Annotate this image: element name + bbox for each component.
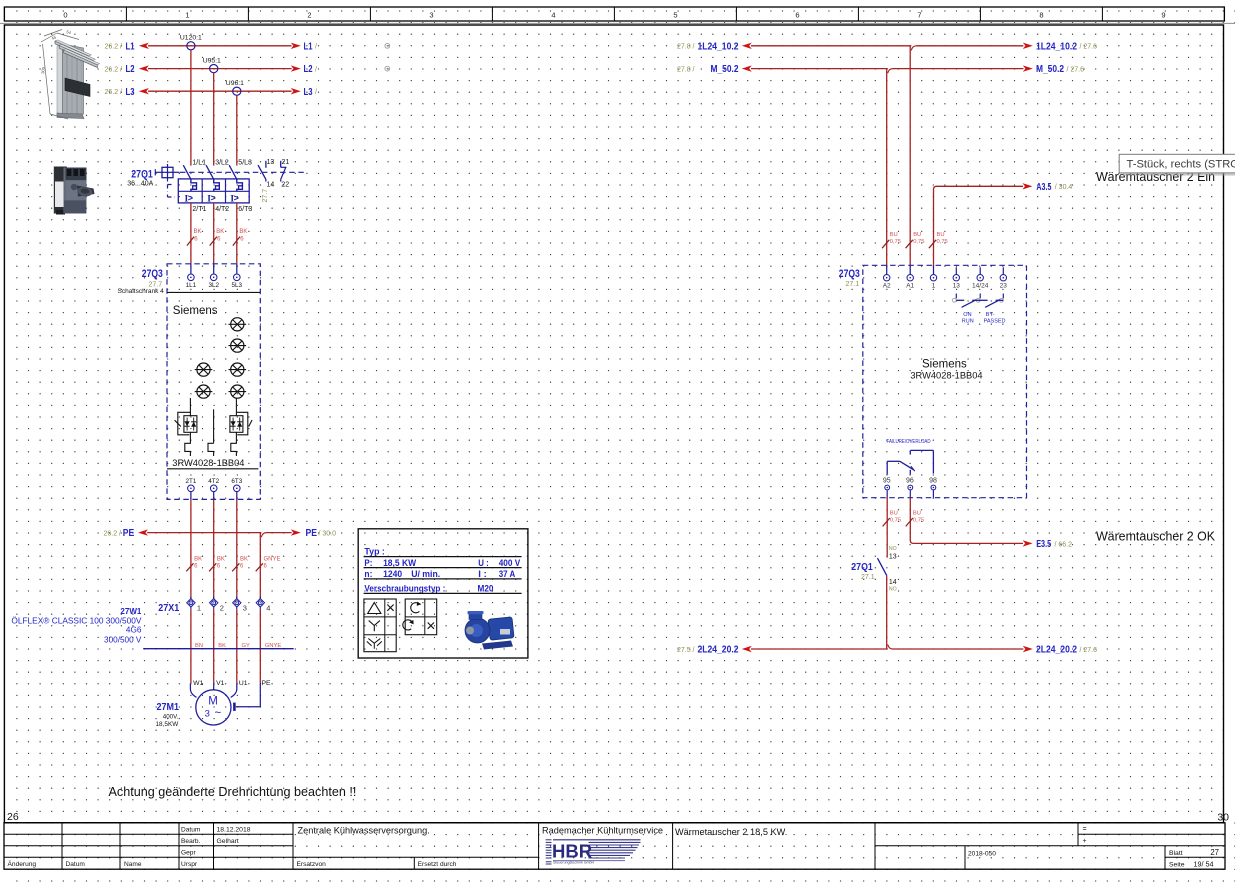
feedback contacts 13/14-24/23 <box>952 294 1003 308</box>
svg-text:V1: V1 <box>216 680 225 687</box>
connection point U120:1 <box>180 35 202 50</box>
svg-text:PE: PE <box>262 680 272 687</box>
svg-text:27: 27 <box>1210 848 1219 857</box>
svg-text:U1: U1 <box>239 680 248 687</box>
motor 27M1 symbol <box>190 683 236 725</box>
svg-text:/ 66.2: / 66.2 <box>1055 541 1073 548</box>
svg-text:1: 1 <box>932 282 936 289</box>
wire label BU 0,75 (control 1) <box>882 232 901 248</box>
svg-text:BK: BK <box>218 643 226 649</box>
soft starter control terminal 95 <box>883 478 891 498</box>
svg-text:27X1: 27X1 <box>158 602 179 614</box>
wire label BK 6 (phase 1) <box>187 229 202 245</box>
breaker 27Q1 aux contact 13-14 <box>258 159 274 189</box>
svg-text:BU: BU <box>890 511 898 517</box>
svg-text:BK: BK <box>239 229 247 235</box>
soft starter screw terminal 1 <box>229 318 247 331</box>
svg-text:PASSED: PASSED <box>984 318 1006 324</box>
svg-text:0,75: 0,75 <box>937 239 948 245</box>
svg-text:U120:1: U120:1 <box>180 35 202 42</box>
soft starter control terminal 98 <box>929 478 937 498</box>
connection point U96:1 <box>226 80 244 95</box>
wire 6/T3 to 1L5 <box>236 203 238 274</box>
svg-text:ÖLFLEX® CLASSIC 100 300/500V: ÖLFLEX® CLASSIC 100 300/500V <box>11 615 142 625</box>
svg-text:13: 13 <box>889 554 897 561</box>
svg-text:300/500 V: 300/500 V <box>104 636 142 645</box>
soft starter terminal 3L2 <box>208 274 219 289</box>
soft starter thyristor phase1 <box>175 398 197 456</box>
svg-text:L1: L1 <box>304 40 313 52</box>
svg-text:5L3: 5L3 <box>232 282 243 289</box>
breaker 27Q1 cross-reference 27.7 <box>262 189 269 203</box>
breaker 27Q1 pin 4/T2 <box>215 206 229 213</box>
cable conductor label GY <box>242 643 251 649</box>
terminal 27X1:2 <box>210 597 224 613</box>
svg-text:22: 22 <box>281 182 289 189</box>
svg-text:Siemens: Siemens <box>173 305 218 317</box>
svg-text:4: 4 <box>551 11 555 20</box>
svg-text:6/T3: 6/T3 <box>238 206 252 213</box>
svg-text:Änderung: Änderung <box>8 860 37 868</box>
svg-text:3RW4028-1BB04: 3RW4028-1BB04 <box>172 458 244 468</box>
wire 27X1:2 to motor <box>213 609 215 683</box>
photo: busbar adapter <box>40 29 100 119</box>
soft starter 27Q3 control dashed outline <box>863 265 1027 497</box>
soft starter screw terminal 5 <box>195 385 213 398</box>
soft starter terminal 6T3 <box>231 478 242 492</box>
svg-text:18,5 KW: 18,5 KW <box>383 558 416 568</box>
soft starter phase2 through-path <box>208 409 214 456</box>
soft starter control type text <box>910 358 982 380</box>
svg-text:Name: Name <box>124 861 142 868</box>
svg-text:M_50.2: M_50.2 <box>1036 63 1064 75</box>
svg-text:98: 98 <box>929 478 937 485</box>
text Waeremtauscher 2 Ein <box>1096 169 1215 184</box>
svg-text:BU: BU <box>937 232 945 238</box>
svg-text:=: = <box>1083 826 1087 833</box>
tooltip T-Stueck rechts <box>1119 154 1235 175</box>
wire L1 drop <box>190 50 192 166</box>
svg-text:4T2: 4T2 <box>208 478 219 485</box>
title block text fields <box>8 826 1220 869</box>
svg-text:T-Stück, rechts (STRG: T-Stück, rechts (STRG <box>1127 159 1235 171</box>
svg-text:96: 96 <box>906 478 914 485</box>
motor 27M1 labels <box>156 701 180 728</box>
wire label BU 0,75 (control 3) <box>929 232 948 248</box>
photo: pump <box>465 611 514 650</box>
soft starter type text <box>172 458 244 468</box>
breaker 27Q1 aux contact 21-22 <box>281 159 290 189</box>
svg-text:27Q1: 27Q1 <box>131 168 153 180</box>
svg-text:0,75: 0,75 <box>890 517 901 523</box>
svg-text:5/L3: 5/L3 <box>238 160 252 167</box>
bus wire M_50.2 <box>677 63 1084 75</box>
wire label BK 6 (27X1:1) <box>186 557 202 572</box>
svg-text:2: 2 <box>307 11 311 20</box>
svg-text:M_50.2: M_50.2 <box>711 63 739 75</box>
svg-text:U/ min.: U/ min. <box>411 569 440 579</box>
svg-text:14: 14 <box>889 579 897 586</box>
connection point U95:1 <box>203 57 221 72</box>
svg-text:1L1: 1L1 <box>186 282 197 289</box>
breaker 27Q1 pin 2/T1 <box>192 206 206 213</box>
svg-text:/ 27.6: / 27.6 <box>1080 647 1098 654</box>
breaker 27Q1 pole 1/L1 contact <box>183 160 206 180</box>
svg-text:2/T1: 2/T1 <box>192 206 206 213</box>
terminal 27X1:4 <box>256 597 270 613</box>
svg-text:3RW4028-1BB04: 3RW4028-1BB04 <box>910 370 982 380</box>
soft starter control terminal A1 <box>906 275 914 290</box>
svg-text:27W1: 27W1 <box>120 607 141 616</box>
bus wire PE <box>103 527 336 539</box>
svg-text:400V.: 400V. <box>163 713 179 720</box>
svg-text:A3.5: A3.5 <box>1036 181 1051 193</box>
svg-text:18.12.2018: 18.12.2018 <box>217 826 251 833</box>
svg-text:7: 7 <box>917 11 921 20</box>
svg-text:Bearb.: Bearb. <box>181 838 201 845</box>
svg-text:Datum: Datum <box>66 861 86 868</box>
svg-text:3: 3 <box>205 709 210 720</box>
svg-text:GY: GY <box>242 643 251 649</box>
svg-text:L2: L2 <box>126 63 135 75</box>
svg-text:>: > <box>234 193 239 203</box>
warning note text <box>109 785 357 799</box>
svg-text:HBR: HBR <box>552 840 592 861</box>
svg-text:3/L2: 3/L2 <box>215 160 229 167</box>
wire 14 to 2L24 junction <box>887 576 893 649</box>
contact 27Q1 13-14 <box>851 546 896 592</box>
svg-text:14/24: 14/24 <box>972 282 989 289</box>
svg-text:Wärmetauscher 2 18,5 KW.: Wärmetauscher 2 18,5 KW. <box>675 827 787 837</box>
svg-text:27.5 /: 27.5 / <box>677 647 695 654</box>
svg-text:18,5KW: 18,5KW <box>156 721 180 728</box>
svg-text:27.7: 27.7 <box>262 189 269 203</box>
soft starter 27Q3 dashed outline <box>167 264 260 500</box>
svg-text:GNYE: GNYE <box>264 557 281 563</box>
svg-text:4G6: 4G6 <box>126 626 142 635</box>
svg-text:U95:1: U95:1 <box>203 57 221 64</box>
svg-text:2: 2 <box>220 603 224 612</box>
wire A3.5 branch <box>934 186 1024 274</box>
soft starter control terminal 1 <box>930 275 936 290</box>
svg-text:27Q3: 27Q3 <box>839 268 860 280</box>
soft starter control terminal 96 <box>906 478 914 498</box>
bus wire L1 <box>104 40 317 52</box>
wire 27X1:4 to motor PE <box>259 609 261 683</box>
svg-text:Ersetzt durch: Ersetzt durch <box>418 861 457 868</box>
svg-text:A1: A1 <box>906 282 914 289</box>
svg-text:2018-050: 2018-050 <box>968 850 996 857</box>
soft starter control terminal 23 <box>1000 267 1008 289</box>
winding connection symbol table <box>364 599 396 652</box>
svg-text:>: > <box>188 193 193 203</box>
svg-text:GNYE: GNYE <box>265 643 282 649</box>
soft starter brand text <box>173 305 218 317</box>
svg-text:L2: L2 <box>304 63 313 75</box>
svg-text:Zentrale Kühlwasserversorgung.: Zentrale Kühlwasserversorgung. <box>298 826 430 836</box>
svg-text:BU: BU <box>913 232 921 238</box>
svg-text:/ 27.6: / 27.6 <box>1080 44 1098 51</box>
wire label BK 6 (phase 2) <box>210 229 225 245</box>
svg-text:95: 95 <box>883 478 891 485</box>
terminal 27X1:1 <box>187 597 201 613</box>
wire 4T2 to 27X1:2 <box>213 491 215 600</box>
svg-text:/: / <box>315 89 317 96</box>
bus wire L2 <box>104 63 317 75</box>
svg-text:P:: P: <box>364 558 372 568</box>
svg-text:27.1: 27.1 <box>846 281 860 288</box>
svg-text:13: 13 <box>953 282 961 289</box>
svg-text:3: 3 <box>243 603 247 612</box>
svg-text:>: > <box>211 193 216 203</box>
svg-text:Urspr: Urspr <box>181 861 198 868</box>
wire label BK 6 (phase 3) <box>233 229 248 245</box>
wire 4/T2 to 1L3 <box>213 203 215 274</box>
svg-text:Blatt: Blatt <box>1169 850 1183 857</box>
svg-text:L1: L1 <box>126 40 135 52</box>
soft starter control terminal A2 <box>883 275 891 290</box>
cable conductor label BN <box>195 643 203 649</box>
grid marker near L1 <box>385 43 390 48</box>
svg-text:0,75: 0,75 <box>913 239 924 245</box>
svg-text:Gepr: Gepr <box>181 849 196 856</box>
svg-text:9: 9 <box>1161 11 1165 20</box>
soft starter screw terminal 2 <box>229 339 247 352</box>
svg-text:2L24_20.2: 2L24_20.2 <box>1036 644 1077 656</box>
soft starter screw terminal 3 <box>195 363 213 376</box>
wire junction 1L24 to A1 <box>910 46 916 275</box>
svg-text:PE: PE <box>306 527 318 539</box>
svg-text:BK: BK <box>194 229 202 235</box>
soft starter control terminal 13 <box>953 267 961 289</box>
svg-text:3: 3 <box>429 11 433 20</box>
bus wire L3 <box>104 86 317 98</box>
failure/overload changeover contact <box>887 439 934 475</box>
cable conductor label BK <box>218 643 226 649</box>
svg-text:FAILURE/OVERLOAD: FAILURE/OVERLOAD <box>887 439 931 445</box>
wire 95 down <box>886 498 888 558</box>
svg-text:ON: ON <box>963 312 971 318</box>
svg-text:4: 4 <box>266 603 270 612</box>
svg-text:36...40A: 36...40A <box>127 181 153 188</box>
svg-text:Datum: Datum <box>181 827 201 834</box>
wire 96 to E3.5 <box>910 498 1023 544</box>
svg-text:5: 5 <box>673 11 677 20</box>
wire junction M_50 to A2 <box>887 69 893 275</box>
svg-text:1L24_10.2: 1L24_10.2 <box>698 40 739 52</box>
wire label BU 0,75 (below box 1) <box>883 511 901 527</box>
svg-text:NO: NO <box>889 586 897 592</box>
svg-text:Verschraubungstyp :: Verschraubungstyp : <box>364 583 445 593</box>
breaker 27Q1 pole 3/L2 contact <box>206 160 229 180</box>
svg-text:Wäremtauscher 2 OK: Wäremtauscher 2 OK <box>1096 528 1215 543</box>
svg-text:1240: 1240 <box>383 569 402 579</box>
svg-text:0,75: 0,75 <box>913 517 924 523</box>
wire label BK 6 (27X1:2) <box>209 557 225 572</box>
motor data plate box <box>358 529 528 658</box>
svg-text:Steuerungstechnik GmbH: Steuerungstechnik GmbH <box>553 860 595 864</box>
soft starter terminal 5L3 <box>232 274 243 289</box>
svg-text:26.2 /: 26.2 / <box>103 530 121 537</box>
cable 27W1 OLFLEX CLASSIC 100 <box>11 607 293 649</box>
terminal strip 27X1 label <box>158 602 179 614</box>
svg-text:6: 6 <box>795 11 799 20</box>
svg-text:I :: I : <box>478 569 487 579</box>
svg-text:6T3: 6T3 <box>231 478 242 485</box>
svg-text:/ 30.0: / 30.0 <box>319 530 337 537</box>
svg-text:1/L1: 1/L1 <box>192 160 206 167</box>
soft starter bottom rail <box>167 468 258 470</box>
svg-text:M20: M20 <box>478 583 494 593</box>
soft starter 27Q3 control labels <box>839 268 860 288</box>
svg-text:/: / <box>315 66 317 73</box>
svg-text:~: ~ <box>214 707 221 719</box>
text Waeremtauscher 2 OK <box>1096 528 1215 543</box>
terminal 27X1:3 <box>233 597 247 613</box>
svg-text:M: M <box>208 696 218 708</box>
svg-text:13: 13 <box>267 159 275 166</box>
svg-text:BK: BK <box>217 557 225 563</box>
svg-text:L3: L3 <box>304 86 313 98</box>
svg-text:Seite: Seite <box>1169 861 1185 868</box>
svg-text:27.1: 27.1 <box>861 574 875 581</box>
cable conductor label GNYE <box>265 643 282 649</box>
signal arrow A3.5 <box>1022 181 1072 193</box>
svg-text:14: 14 <box>267 182 275 189</box>
breaker 27Q1 release box I> <box>168 179 250 204</box>
motor terminal labels W1 V1 U1 PE <box>193 680 271 687</box>
rotation direction symbol table <box>403 599 437 635</box>
svg-text:/: / <box>315 44 317 51</box>
wire L3 drop <box>236 95 238 165</box>
wire label BU 0,75 (control 2) <box>906 232 925 248</box>
bus wire 2L24_20.2 <box>677 644 1097 656</box>
svg-text:BU: BU <box>890 232 898 238</box>
wire 2T1 to 27X1:1 <box>190 491 192 600</box>
wire label GNYE 6 (27X1:4) <box>256 557 281 572</box>
wire label BU 0,75 (below box 2) <box>906 511 924 527</box>
svg-text:BK: BK <box>194 557 202 563</box>
svg-text:RUN: RUN <box>962 318 974 324</box>
wire 2/T1 to 1L1 <box>190 203 192 274</box>
svg-text:BK: BK <box>240 557 248 563</box>
svg-text:30: 30 <box>1217 812 1229 824</box>
page number 26 <box>7 811 19 823</box>
svg-text:0: 0 <box>63 11 67 20</box>
svg-text:23: 23 <box>1000 282 1008 289</box>
svg-text:1L24_10.2: 1L24_10.2 <box>1036 40 1077 52</box>
soft starter top rail <box>167 291 260 293</box>
svg-text:U :: U : <box>478 558 489 568</box>
svg-text:BK: BK <box>216 229 224 235</box>
svg-text:0,75: 0,75 <box>890 239 901 245</box>
svg-text:/ 27.6: / 27.6 <box>1067 66 1085 73</box>
svg-text:8: 8 <box>1039 11 1043 20</box>
svg-text:L3: L3 <box>126 86 135 98</box>
photo: motor protection switch <box>54 167 95 215</box>
svg-text:26.2 /: 26.2 / <box>104 66 122 73</box>
breaker 27Q1 labels <box>127 168 153 187</box>
soft starter terminal 4T2 <box>208 478 219 492</box>
soft starter control terminal 14/24 <box>972 267 989 289</box>
svg-text:Ersatzvon: Ersatzvon <box>297 861 327 868</box>
motor PE connection bar <box>234 683 260 711</box>
svg-text:+: + <box>1083 838 1087 845</box>
page number 30 <box>1217 812 1229 824</box>
breaker 27Q1 pole 5/L3 contact <box>229 160 252 180</box>
grid marker near L2 <box>385 66 390 71</box>
svg-text:27.8 /: 27.8 / <box>677 66 695 73</box>
breaker 27Q1 linkage dashed line <box>180 171 306 173</box>
svg-text:1: 1 <box>185 11 189 20</box>
svg-text:E3.5: E3.5 <box>1036 538 1051 550</box>
soft starter screw terminal 6 <box>229 385 247 398</box>
breaker 27Q1 pin 6/T3 <box>238 206 252 213</box>
wire 27X1:1 to motor <box>190 609 192 683</box>
soft starter terminal 2T1 <box>185 478 196 492</box>
soft starter terminal 1L1 <box>186 274 197 289</box>
wire 27X1:3 to motor <box>236 609 238 683</box>
svg-text:3L2: 3L2 <box>208 282 219 289</box>
svg-text:26.2 /: 26.2 / <box>104 44 122 51</box>
wire PE branch jog <box>260 533 266 601</box>
svg-text:Typ :: Typ : <box>364 547 385 557</box>
soft starter thyristor phase3 <box>230 398 252 456</box>
svg-text:Achtung geänderte Drehrichtung: Achtung geänderte Drehrichtung beachten … <box>109 785 357 799</box>
svg-text:PE: PE <box>123 527 135 539</box>
svg-text:Siemens: Siemens <box>922 358 967 370</box>
svg-text:19/ 54: 19/ 54 <box>1194 859 1214 868</box>
wire L2 drop <box>213 73 215 166</box>
svg-text:Gelhart: Gelhart <box>217 838 239 845</box>
svg-text:Rademacher Kühlturmservice: Rademacher Kühlturmservice <box>542 826 663 836</box>
wire label BK 6 (27X1:3) <box>232 557 248 572</box>
svg-text:27Q3: 27Q3 <box>142 268 163 280</box>
svg-text:2T1: 2T1 <box>185 478 196 485</box>
svg-text:BU: BU <box>913 511 921 517</box>
bus wire 1L24_10.2 <box>677 40 1097 52</box>
svg-text:A2: A2 <box>883 282 891 289</box>
svg-text:NO: NO <box>889 546 897 552</box>
svg-text:n:: n: <box>364 569 372 579</box>
wire 6T3 to 27X1:3 <box>236 491 238 600</box>
svg-text:27.8 /: 27.8 / <box>677 44 695 51</box>
svg-text:37 A: 37 A <box>499 569 516 579</box>
svg-text:26: 26 <box>7 811 19 823</box>
soft starter 27Q3 labels <box>118 268 165 295</box>
svg-text:400 V: 400 V <box>499 558 521 568</box>
svg-text:26.2 /: 26.2 / <box>104 89 122 96</box>
svg-text:BN: BN <box>195 643 203 649</box>
HBR company logo <box>423 840 641 865</box>
svg-text:Schaltschrank 4: Schaltschrank 4 <box>118 288 165 295</box>
signal arrow E3.5 <box>1023 538 1073 550</box>
svg-text:U96:1: U96:1 <box>226 80 244 87</box>
svg-text:4/T2: 4/T2 <box>215 206 229 213</box>
contact function labels ON/RUN BY-PASSED <box>962 312 1006 324</box>
svg-text:BY-: BY- <box>986 312 995 318</box>
svg-text:/ 30.4: / 30.4 <box>1055 184 1073 191</box>
svg-text:W1: W1 <box>193 680 203 687</box>
svg-text:27M1: 27M1 <box>157 701 180 713</box>
svg-text:21: 21 <box>282 159 290 166</box>
svg-text:27Q1: 27Q1 <box>851 561 873 573</box>
breaker 27Q1 manual operator <box>155 164 179 182</box>
soft starter screw terminal 4 <box>229 363 247 376</box>
svg-text:1: 1 <box>197 603 201 612</box>
svg-text:2L24_20.2: 2L24_20.2 <box>698 644 739 656</box>
